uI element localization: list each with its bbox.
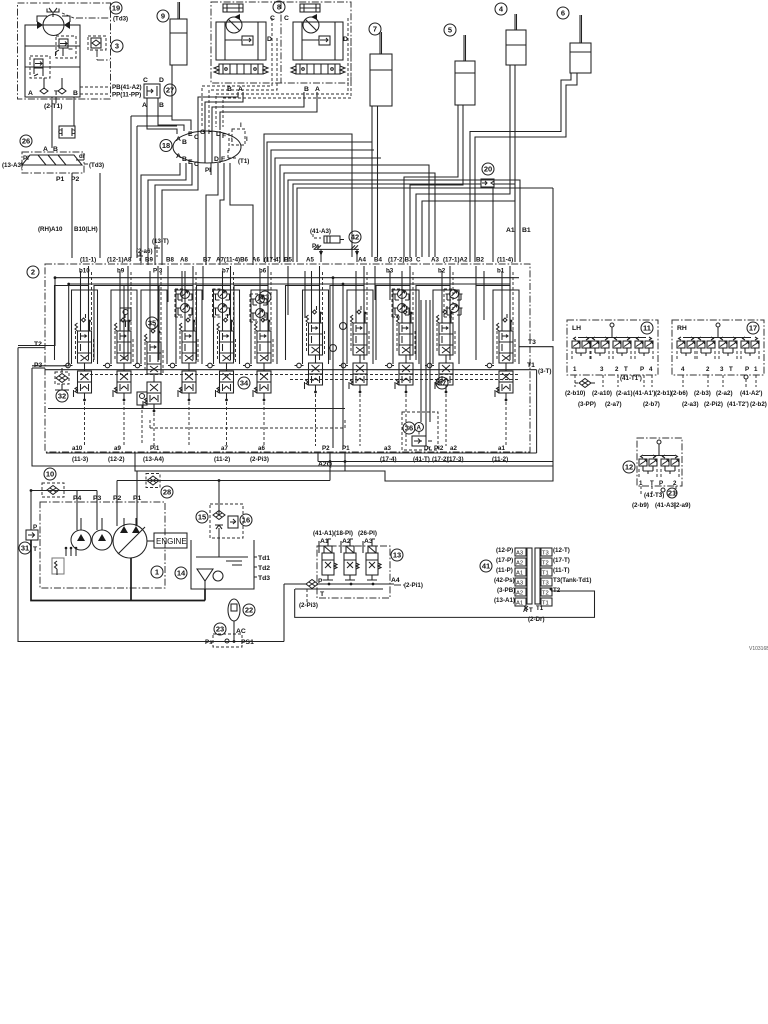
top port labels row2 bbox=[79, 268, 505, 275]
svg-text:I: I bbox=[246, 136, 248, 143]
LH labels bbox=[565, 390, 672, 408]
(Td3) dashed line bbox=[76, 16, 128, 23]
wire bottom loop bbox=[295, 589, 595, 617]
wire cyl4 B stair bbox=[416, 65, 510, 257]
svg-text:22: 22 bbox=[245, 606, 253, 615]
svg-text:T: T bbox=[650, 480, 654, 487]
svg-text:B9: B9 bbox=[145, 257, 153, 264]
svg-text:(2-Pi1): (2-Pi1) bbox=[404, 582, 423, 589]
wire cyl4 A stair bbox=[422, 65, 515, 257]
svg-text:I: I bbox=[240, 122, 242, 129]
wire 26 P1 down bbox=[71, 173, 73, 258]
svg-text:(11-2): (11-2) bbox=[214, 456, 230, 463]
check valve 10 bbox=[42, 468, 64, 497]
svg-text:A3: A3 bbox=[431, 257, 439, 264]
wire b6b to cyl7 bbox=[267, 142, 372, 262]
svg-text:14: 14 bbox=[177, 569, 186, 578]
svg-text:31: 31 bbox=[21, 544, 29, 553]
wire 27A to oval A bbox=[147, 98, 177, 134]
svg-text:(2-b9): (2-b9) bbox=[632, 502, 649, 509]
wire swing T to 26 bbox=[52, 97, 56, 148]
valve 3 pressure switch bbox=[88, 36, 110, 60]
svg-text:(2-b3): (2-b3) bbox=[694, 390, 711, 397]
svg-text:A: A bbox=[28, 90, 33, 97]
pump internals bbox=[52, 547, 77, 575]
svg-text:23: 23 bbox=[216, 625, 224, 634]
valve 42 accumulator bbox=[310, 228, 361, 262]
top port labels row1 bbox=[80, 257, 513, 264]
svg-text:5: 5 bbox=[448, 26, 452, 35]
T2 P3 labels left bbox=[34, 341, 43, 369]
svg-text:(11-3): (11-3) bbox=[72, 456, 88, 463]
svg-text:(17-2)B3: (17-2)B3 bbox=[388, 257, 413, 264]
main control valve block 2 bbox=[45, 264, 530, 452]
svg-text:P: P bbox=[745, 366, 749, 373]
svg-text:T: T bbox=[729, 366, 733, 373]
svg-text:Td2: Td2 bbox=[258, 565, 270, 572]
wire B1 loop bbox=[288, 180, 520, 262]
svg-text:(2-a10): (2-a10) bbox=[592, 390, 612, 397]
svg-text:D: D bbox=[214, 156, 219, 163]
extra top port feed stubs bbox=[168, 266, 484, 320]
svg-text:F: F bbox=[222, 133, 226, 140]
svg-text:C: C bbox=[284, 15, 289, 22]
port relief cluster x226.5 bbox=[213, 289, 232, 317]
svg-text:T3: T3 bbox=[542, 551, 549, 557]
filter 15 16 bbox=[196, 504, 252, 538]
svg-text:2: 2 bbox=[615, 366, 619, 373]
svg-text:21: 21 bbox=[668, 489, 676, 498]
manifold block 41 bbox=[480, 547, 591, 623]
svg-text:(11-P): (11-P) bbox=[496, 567, 513, 574]
svg-text:36: 36 bbox=[405, 424, 413, 433]
svg-text:4: 4 bbox=[681, 366, 685, 373]
wire P3 pump drop bbox=[96, 491, 98, 531]
valve section x360 bbox=[330, 266, 373, 446]
svg-text:C: C bbox=[270, 15, 275, 22]
svg-text:32: 32 bbox=[58, 392, 66, 401]
svg-text:a3: a3 bbox=[384, 445, 391, 452]
svg-text:(13-A3): (13-A3) bbox=[2, 162, 23, 169]
svg-text:3: 3 bbox=[600, 366, 604, 373]
svg-text:(41-A1)(18-PI): (41-A1)(18-PI) bbox=[313, 530, 353, 537]
T3 T1 labels right bbox=[527, 339, 551, 375]
swing motor block 19 outer dash-dot box bbox=[18, 3, 111, 99]
svg-text:(12-1)A8: (12-1)A8 bbox=[107, 257, 132, 264]
relief valve pair R2 bbox=[30, 56, 50, 78]
port relief cluster x264 bbox=[250, 294, 269, 322]
travel motor unit left bbox=[214, 4, 268, 93]
P1 P2 risers bbox=[330, 278, 347, 448]
svg-text:B: B bbox=[227, 86, 232, 93]
svg-text:A: A bbox=[176, 153, 181, 160]
svg-text:1: 1 bbox=[155, 568, 159, 577]
svg-text:(2-a7): (2-a7) bbox=[605, 401, 622, 408]
svg-text:F: F bbox=[221, 156, 225, 163]
wire tm2 B to oval bbox=[212, 92, 304, 130]
svg-text:(2-a6): (2-a6) bbox=[136, 248, 153, 255]
svg-text:B: B bbox=[182, 156, 187, 163]
port relief cluster x458 bbox=[444, 289, 463, 317]
svg-text:T3: T3 bbox=[542, 581, 549, 587]
wire cyl7 A down bbox=[377, 106, 379, 257]
svg-text:PP(11-PP): PP(11-PP) bbox=[112, 92, 141, 99]
svg-text:(12-T): (12-T) bbox=[553, 547, 570, 554]
valve section x406 bbox=[376, 266, 419, 446]
svg-text:T: T bbox=[529, 607, 533, 614]
wire pair b9 feed bbox=[131, 116, 177, 258]
svg-text:17: 17 bbox=[749, 324, 757, 333]
svg-text:(2-Pi2): (2-Pi2) bbox=[704, 401, 723, 408]
svg-text:T1: T1 bbox=[536, 605, 544, 612]
cylinder 7 bbox=[369, 23, 392, 106]
wire cyl7 B down bbox=[371, 106, 373, 257]
b9 priority valve bbox=[120, 308, 131, 327]
travel motor unit right bbox=[291, 4, 345, 93]
svg-text:D: D bbox=[267, 36, 272, 43]
svg-text:(41-T2'): (41-T2') bbox=[727, 401, 749, 408]
svg-text:(2-T1): (2-T1) bbox=[44, 103, 63, 110]
wire oval to A6 bbox=[230, 163, 253, 265]
RH pilot block 17 bbox=[672, 320, 764, 387]
svg-text:A: A bbox=[43, 146, 48, 153]
wire 26 P2 down bbox=[99, 173, 101, 258]
wire T1 bus exit bbox=[46, 370, 537, 453]
svg-text:P: P bbox=[659, 480, 663, 487]
wire left T2 entry bbox=[18, 347, 45, 349]
svg-text:3: 3 bbox=[720, 366, 724, 373]
wire P2 port stub bbox=[330, 452, 345, 481]
svg-text:3: 3 bbox=[115, 42, 119, 51]
svg-text:AC: AC bbox=[236, 628, 246, 635]
svg-text:PI: PI bbox=[205, 167, 211, 174]
cylinder 9 bbox=[157, 2, 187, 65]
pilot 13-T mark bbox=[137, 245, 160, 262]
svg-text:T2: T2 bbox=[34, 341, 42, 348]
svg-text:Pi1: Pi1 bbox=[150, 445, 160, 452]
wire oval C down bbox=[162, 163, 198, 265]
svg-text:(17-1)A2: (17-1)A2 bbox=[443, 257, 468, 264]
LH pilot block 11 bbox=[567, 320, 658, 388]
relief valve 32 bbox=[55, 368, 69, 402]
svg-text:B7: B7 bbox=[203, 257, 211, 264]
circled 3 bbox=[111, 40, 123, 52]
svg-text:D: D bbox=[343, 36, 348, 43]
svg-text:a6: a6 bbox=[258, 445, 265, 452]
check valves at A T B bbox=[40, 78, 66, 94]
svg-text:1: 1 bbox=[573, 366, 577, 373]
svg-text:(2-a9): (2-a9) bbox=[674, 502, 691, 509]
svg-text:b7: b7 bbox=[222, 268, 230, 275]
svg-text:A2: A2 bbox=[516, 591, 523, 597]
svg-text:(17-T): (17-T) bbox=[553, 557, 570, 564]
circled 37 bbox=[436, 377, 448, 389]
circled 8 bbox=[273, 1, 285, 13]
wire oval D down to B7 bbox=[206, 163, 218, 265]
svg-text:Ps: Ps bbox=[205, 639, 213, 646]
circled 35 bbox=[146, 317, 158, 329]
svg-text:A: A bbox=[315, 86, 320, 93]
valve section x506 bbox=[476, 266, 519, 446]
svg-text:B: B bbox=[304, 86, 309, 93]
wire T3 right bbox=[135, 347, 553, 481]
RH labels bbox=[671, 390, 767, 408]
Pi3 reducing valve bbox=[137, 392, 147, 445]
svg-text:P2: P2 bbox=[322, 445, 330, 452]
pilot dashed tm1 D bbox=[209, 38, 277, 127]
wire oval F down to A7 bbox=[220, 163, 224, 265]
svg-text:37: 37 bbox=[438, 379, 446, 388]
svg-text:(3-PB): (3-PB) bbox=[497, 587, 515, 594]
svg-text:P: P bbox=[640, 366, 644, 373]
svg-text:(2-b2): (2-b2) bbox=[750, 401, 767, 408]
svg-text:(13-A4): (13-A4) bbox=[143, 456, 164, 463]
svg-text:B: B bbox=[159, 102, 164, 109]
wire cyl5 B stair bbox=[404, 105, 458, 257]
valve section x189 bbox=[159, 266, 202, 446]
pilot dashed tm2 D bbox=[223, 38, 351, 127]
svg-text:A3: A3 bbox=[516, 551, 523, 557]
svg-text:b9: b9 bbox=[117, 268, 125, 275]
valve 27 bbox=[142, 77, 176, 109]
circled 34 bbox=[238, 377, 250, 389]
cylinder 4 bbox=[495, 3, 526, 65]
svg-text:E: E bbox=[188, 131, 193, 138]
svg-text:(17-P): (17-P) bbox=[496, 557, 513, 564]
svg-text:1: 1 bbox=[754, 366, 758, 373]
wire 13P to PS1 riser bbox=[283, 584, 285, 642]
svg-text:6: 6 bbox=[561, 9, 565, 18]
svg-text:13: 13 bbox=[393, 551, 401, 560]
cylinder 5 bbox=[444, 24, 475, 105]
svg-text:(41-A1'): (41-A1') bbox=[633, 390, 655, 397]
svg-text:LH: LH bbox=[572, 325, 581, 332]
wire oval B down bbox=[148, 163, 186, 265]
wire left P3 entry bbox=[32, 367, 45, 369]
feed galleries bbox=[55, 278, 519, 284]
svg-text:34: 34 bbox=[240, 379, 249, 388]
gear pump small 2 bbox=[92, 518, 112, 550]
svg-text:B: B bbox=[182, 139, 187, 146]
valve section x315.5 bbox=[286, 266, 329, 446]
svg-text:20: 20 bbox=[484, 165, 492, 174]
svg-text:Pi2: Pi2 bbox=[434, 445, 444, 452]
svg-text:A: A bbox=[238, 86, 243, 93]
svg-text:A2: A2 bbox=[516, 561, 523, 567]
svg-text:8: 8 bbox=[277, 3, 281, 12]
svg-text:T: T bbox=[624, 366, 628, 373]
svg-text:T3(Tank-Td1): T3(Tank-Td1) bbox=[553, 577, 591, 584]
junction dots bbox=[54, 276, 345, 285]
svg-text:a7: a7 bbox=[221, 445, 228, 452]
wire cyl6 B to B2 bbox=[470, 73, 571, 262]
svg-text:(2-b6): (2-b6) bbox=[671, 390, 688, 397]
svg-text:(T1): (T1) bbox=[238, 158, 249, 165]
svg-text:A4: A4 bbox=[358, 257, 366, 264]
P bus bbox=[45, 369, 530, 371]
accumulator 22 bbox=[228, 599, 255, 621]
svg-text:A5: A5 bbox=[306, 257, 314, 264]
block 26 pilot valve bbox=[2, 126, 104, 183]
wire 26 B to CD valve bbox=[73, 97, 75, 126]
svg-text:19: 19 bbox=[112, 4, 120, 13]
svg-text:(41-A3): (41-A3) bbox=[655, 502, 676, 509]
svg-text:A: A bbox=[417, 425, 422, 432]
svg-text:A: A bbox=[176, 136, 181, 143]
svg-text:16: 16 bbox=[242, 516, 250, 525]
svg-text:15: 15 bbox=[198, 513, 206, 522]
valve 36 bbox=[402, 300, 438, 450]
svg-text:B1: B1 bbox=[522, 227, 531, 234]
svg-text:(2-a3): (2-a3) bbox=[682, 401, 699, 408]
svg-text:(12-P): (12-P) bbox=[496, 547, 513, 554]
svg-text:A1: A1 bbox=[516, 601, 523, 607]
svg-text:T2: T2 bbox=[542, 561, 549, 567]
svg-text:A4: A4 bbox=[391, 577, 400, 584]
svg-text:A8: A8 bbox=[180, 257, 188, 264]
svg-text:A1: A1 bbox=[506, 227, 515, 234]
pilot collector dashed bbox=[150, 420, 345, 428]
svg-text:C: C bbox=[143, 77, 148, 84]
PB PP dashed lines and labels bbox=[80, 84, 142, 99]
circled 19 bbox=[110, 2, 122, 14]
svg-text:(2-b7): (2-b7) bbox=[643, 401, 660, 408]
svg-text:Td3: Td3 bbox=[258, 575, 270, 582]
svg-text:P1: P1 bbox=[342, 445, 350, 452]
svg-text:PI: PI bbox=[23, 155, 29, 162]
svg-text:(2-b1): (2-b1) bbox=[655, 390, 672, 397]
wire oval E down bbox=[155, 163, 192, 265]
left labels above block bbox=[38, 226, 169, 255]
svg-text:B: B bbox=[73, 90, 78, 97]
wire tm1 A to oval bbox=[205, 92, 243, 130]
svg-text:(Td3): (Td3) bbox=[113, 16, 128, 23]
svg-text:(11-T): (11-T) bbox=[553, 567, 570, 574]
svg-text:(2-b10): (2-b10) bbox=[565, 390, 585, 397]
svg-text:P1: P1 bbox=[56, 176, 65, 183]
tank 14 bbox=[175, 540, 270, 589]
svg-text:10: 10 bbox=[46, 470, 54, 479]
svg-text:A3: A3 bbox=[516, 581, 523, 587]
svg-text:33: 33 bbox=[261, 293, 269, 302]
pilot dashed buses bbox=[80, 375, 520, 380]
svg-text:b1: b1 bbox=[497, 268, 505, 275]
svg-text:(2-Pi3): (2-Pi3) bbox=[250, 456, 269, 463]
wire valve31 tank bbox=[31, 540, 205, 601]
svg-text:A: A bbox=[142, 102, 147, 109]
svg-text:2: 2 bbox=[31, 268, 35, 277]
svg-text:T2: T2 bbox=[542, 591, 549, 597]
svg-text:41: 41 bbox=[482, 562, 490, 571]
svg-text:35: 35 bbox=[148, 319, 156, 328]
wire oval A down bbox=[141, 163, 180, 265]
wire filter drop bbox=[218, 481, 220, 558]
svg-text:B2: B2 bbox=[476, 257, 484, 264]
svg-text:(11-4): (11-4) bbox=[497, 257, 513, 264]
svg-text:12: 12 bbox=[625, 463, 633, 472]
svg-text:7: 7 bbox=[373, 25, 377, 34]
pressure switch 23 bbox=[205, 623, 254, 647]
svg-text:A7(11-4)B6: A7(11-4)B6 bbox=[216, 257, 249, 264]
svg-text:a10: a10 bbox=[72, 445, 83, 452]
svg-text:9: 9 bbox=[161, 12, 165, 21]
svg-text:A1: A1 bbox=[516, 571, 523, 577]
gear pump small 1 bbox=[71, 518, 91, 550]
wire T2 long left down bbox=[18, 348, 284, 642]
svg-text:B4: B4 bbox=[374, 257, 382, 264]
wire A1 valve20 line bbox=[293, 184, 515, 262]
(2-T1) label bbox=[44, 103, 63, 110]
wire cyl5 A stair bbox=[410, 105, 463, 257]
svg-text:D: D bbox=[159, 77, 164, 84]
T bus bbox=[48, 408, 345, 410]
T2 P3 entries bbox=[18, 278, 69, 366]
svg-text:B8: B8 bbox=[166, 257, 174, 264]
pump block 1 bbox=[40, 495, 165, 588]
bottom port labels row2 bbox=[72, 456, 508, 468]
svg-text:11: 11 bbox=[643, 324, 651, 333]
wire tm1 B to oval bbox=[198, 92, 238, 130]
oval 18 bbox=[160, 129, 249, 175]
svg-text:dr: dr bbox=[79, 153, 86, 160]
svg-text:(42-Ps): (42-Ps) bbox=[494, 577, 515, 584]
wire A2Q bus bbox=[318, 452, 553, 462]
check valve 28 bbox=[146, 474, 173, 499]
svg-text:1: 1 bbox=[639, 480, 643, 487]
wire tm2 A to oval bbox=[220, 92, 317, 130]
svg-text:(41-A2'): (41-A2') bbox=[740, 390, 762, 397]
svg-text:(Td3): (Td3) bbox=[89, 162, 104, 169]
svg-text:B10(LH): B10(LH) bbox=[74, 226, 98, 233]
valve section x84.5 bbox=[55, 266, 98, 446]
svg-text:(2-Pi3): (2-Pi3) bbox=[299, 602, 318, 609]
wire 17-4 tee bbox=[271, 150, 381, 262]
park brake T symbol bbox=[47, 8, 76, 19]
valve section x264 bbox=[234, 266, 277, 446]
wire P1 pump drop bbox=[136, 471, 138, 525]
svg-text:V10316B: V10316B bbox=[749, 646, 768, 652]
cylinder 6 bbox=[557, 7, 591, 73]
drawing code bbox=[749, 646, 768, 652]
svg-text:2: 2 bbox=[673, 480, 677, 487]
svg-text:T1: T1 bbox=[542, 571, 549, 577]
wire P2 pump drop bbox=[117, 481, 330, 527]
svg-text:(41-T1'): (41-T1') bbox=[620, 375, 642, 382]
svg-text:T1: T1 bbox=[527, 362, 535, 369]
valve 20 bbox=[481, 163, 494, 187]
svg-text:Dr: Dr bbox=[424, 445, 431, 452]
swing inner box bbox=[25, 25, 80, 97]
travel block 8 outer box bbox=[211, 2, 351, 83]
svg-text:(3-PP): (3-PP) bbox=[578, 401, 596, 408]
pilot dashed tm1 C bbox=[202, 18, 272, 127]
ENGINE box bbox=[147, 533, 187, 548]
port relief cluster x189 bbox=[175, 289, 194, 317]
svg-text:a2: a2 bbox=[450, 445, 457, 452]
svg-text:18: 18 bbox=[162, 141, 170, 150]
svg-text:(13-A1): (13-A1) bbox=[494, 597, 515, 604]
wire G6 bbox=[297, 188, 553, 341]
swing motor M1 bbox=[37, 15, 70, 36]
pilot dashed tm2 C bbox=[216, 18, 348, 127]
svg-text:B: B bbox=[53, 146, 58, 153]
svg-text:(2-a2): (2-a2) bbox=[716, 390, 733, 397]
svg-text:(41-A3): (41-A3) bbox=[310, 228, 331, 235]
A1 B1 labels bbox=[506, 227, 531, 234]
svg-text:T3: T3 bbox=[528, 339, 536, 346]
I box right of oval bbox=[232, 122, 248, 145]
wire valve31 riser bbox=[30, 489, 33, 530]
